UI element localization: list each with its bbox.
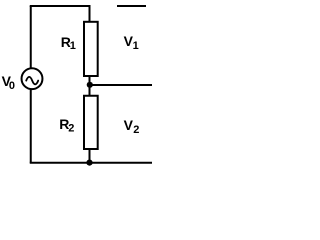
svg-text:0: 0 xyxy=(9,80,15,92)
svg-text:1: 1 xyxy=(70,40,76,52)
svg-text:2: 2 xyxy=(133,124,139,136)
svg-text:V: V xyxy=(124,117,134,133)
svg-text:2: 2 xyxy=(68,122,74,134)
svg-text:1: 1 xyxy=(133,40,139,52)
